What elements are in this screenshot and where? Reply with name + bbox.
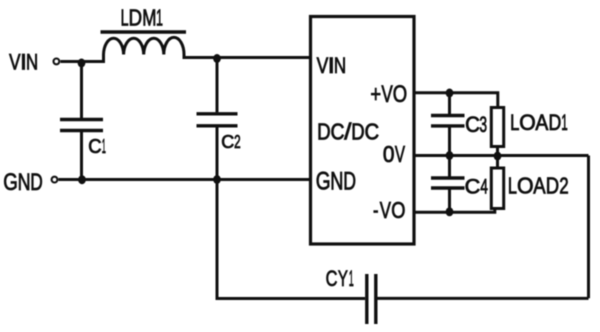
svg-text:C: C [331,119,345,145]
svg-text:1: 1 [156,4,163,30]
svg-text:G: G [3,168,18,196]
svg-text:D: D [129,5,143,31]
svg-text:A: A [535,111,548,136]
svg-text:+: + [370,79,381,107]
svg-text:O: O [393,79,407,107]
svg-text:0: 0 [383,141,395,167]
svg-text:N: N [26,50,38,75]
svg-text:C: C [326,267,338,292]
svg-text:D: D [30,169,43,196]
svg-text:L: L [508,174,517,199]
svg-text:V: V [381,81,392,108]
svg-text:D: D [343,166,356,195]
svg-text:C: C [88,136,101,158]
svg-text:V: V [380,198,392,223]
svg-text:O: O [391,198,405,224]
svg-text:A: A [533,174,545,199]
svg-text:C: C [365,118,380,145]
svg-text:2: 2 [234,132,241,152]
svg-text:N: N [334,54,346,79]
svg-text:L: L [121,5,129,32]
svg-text:M: M [142,5,156,31]
svg-text:4: 4 [480,174,488,198]
svg-text:1: 1 [349,265,354,291]
svg-text:2: 2 [559,174,568,199]
svg-text:1: 1 [102,136,106,159]
svg-text:D: D [546,174,559,199]
svg-text:D: D [549,111,562,135]
svg-text:-: - [373,198,378,224]
svg-text:L: L [510,111,519,136]
svg-text:O: O [519,109,535,135]
svg-text:V: V [395,142,405,168]
svg-text:1: 1 [561,110,567,135]
svg-text:3: 3 [479,112,487,137]
svg-text:C: C [221,132,234,152]
svg-text:C: C [465,112,480,137]
svg-text:N: N [330,167,343,196]
svg-text:N: N [18,168,31,195]
svg-text:D: D [351,119,364,144]
svg-text:C: C [465,174,481,199]
svg-text:G: G [316,167,331,195]
svg-text:D: D [317,120,330,145]
svg-text:O: O [517,173,534,199]
svg-text:Y: Y [338,267,348,292]
